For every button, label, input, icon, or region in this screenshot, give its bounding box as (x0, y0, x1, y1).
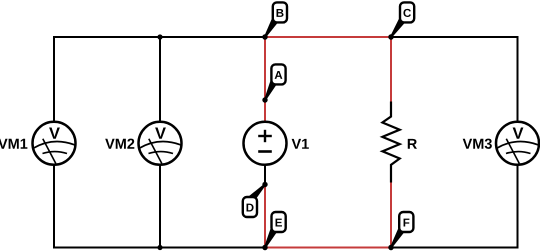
wire top B-C (red) (265, 36, 391, 38)
node C anchor dot (388, 34, 393, 39)
label VM1 (0, 139, 27, 149)
node C pointer (390, 17, 406, 38)
node D pointer (248, 184, 266, 203)
node B flag (273, 2, 287, 22)
wire R branch top (red) (390, 37, 392, 102)
wire VM3 branch top (517, 36, 519, 123)
junction VM2 bottom (157, 245, 162, 250)
node F flag (399, 212, 413, 232)
node A anchor dot (262, 97, 267, 102)
wire bottom-left (black) (54, 247, 265, 249)
junction C (388, 34, 393, 39)
node A pointer (264, 79, 278, 101)
junction B (262, 34, 267, 39)
wire VM1 branch top (53, 36, 55, 123)
voltmeter VM1 (33, 122, 76, 165)
voltage source V1 (244, 122, 287, 165)
node C flag (400, 2, 414, 22)
resistor R (382, 102, 399, 183)
node F pointer (390, 226, 406, 248)
node E pointer (264, 227, 278, 249)
wire VM2 branch top (159, 37, 161, 123)
wire bottom-right (black) (391, 247, 518, 249)
node E anchor dot (262, 245, 267, 250)
node D anchor dot (262, 182, 267, 187)
wire V1 branch D-E (red) (264, 185, 266, 248)
node E flag (272, 212, 286, 232)
wire top-right (black) (391, 36, 518, 38)
wire V1 branch top (red) (264, 37, 266, 123)
wire V1 branch below source (black) (264, 164, 266, 185)
node D flag (243, 197, 257, 217)
label VM3 (463, 139, 492, 149)
wire VM1 branch bottom (53, 164, 55, 249)
label R (408, 139, 417, 149)
junction F (388, 245, 393, 250)
node F anchor dot (388, 245, 393, 250)
junction VM2 top (157, 34, 162, 39)
wire VM3 branch bottom (517, 164, 519, 249)
wire R branch bottom (red) (390, 182, 392, 248)
junction E (262, 245, 267, 250)
label VM2 (105, 139, 134, 149)
voltmeter VM3 (496, 122, 539, 165)
wire bottom E-F (red) (265, 247, 391, 249)
node B anchor dot (262, 34, 267, 39)
voltmeter VM2 (139, 122, 182, 165)
label V1 (292, 139, 309, 149)
wire top-left (black) (54, 36, 265, 38)
wire VM2 branch bottom (159, 164, 161, 248)
node A flag (271, 64, 285, 84)
node B pointer (264, 17, 279, 38)
